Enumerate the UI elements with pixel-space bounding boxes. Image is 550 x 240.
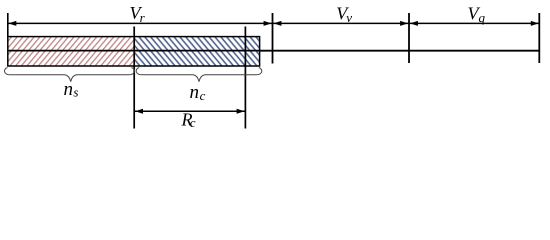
svg-text:s: s	[73, 85, 78, 100]
svg-text:n: n	[190, 82, 200, 103]
red hatched segment fill	[8, 37, 134, 66]
arrowhead Vv left	[273, 21, 281, 26]
svg-text:c: c	[200, 88, 206, 103]
boundary line red/blue + Rc left extension	[133, 27, 135, 129]
svg-text:q: q	[479, 10, 486, 25]
svg-text:v: v	[346, 10, 352, 25]
arrowhead Rc left	[135, 109, 143, 114]
tick at right end	[538, 13, 540, 63]
svg-text:r: r	[140, 10, 146, 25]
svg-text:c: c	[190, 115, 196, 130]
Rc right extension line	[244, 27, 246, 129]
brace nc	[136, 68, 262, 82]
arrowhead Rc right	[237, 109, 245, 114]
rectangle middle line	[8, 50, 260, 52]
brace ns	[5, 68, 135, 82]
dimension line Vr Vv Vq	[8, 22, 540, 24]
arrowhead Vr left	[8, 21, 16, 26]
Rc dimension line	[134, 110, 245, 112]
arrowhead Vq right	[531, 21, 539, 26]
rectangle border	[8, 37, 260, 66]
arrowhead Vr right	[264, 21, 272, 26]
blue hatched segment fill	[134, 37, 259, 66]
axis line	[260, 50, 540, 52]
arrowhead Vv right	[400, 21, 408, 26]
tick at Vr/Vv boundary	[272, 13, 274, 64]
arrowhead Vq left	[410, 21, 418, 26]
tick at Vv/Vq boundary	[408, 13, 410, 63]
left extension line	[7, 13, 9, 37]
svg-text:n: n	[64, 79, 74, 100]
